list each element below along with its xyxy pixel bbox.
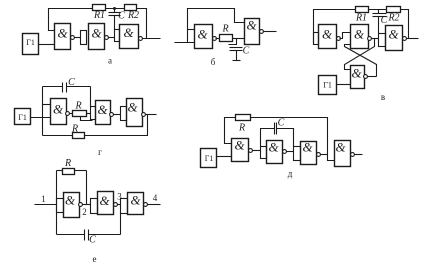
input stub upper DD1 (circuit b) xyxy=(188,29,195,31)
NAND gate DD2 (circuit e) xyxy=(98,192,114,215)
wire G1 to gate1 (circuit a) xyxy=(39,44,55,46)
output bubble DD1 node 2 (circuit e) xyxy=(79,203,83,207)
svg-text:&: & xyxy=(268,140,279,155)
output wire (circuit v) xyxy=(407,38,419,40)
wire DD1 to R (circuit g) xyxy=(70,113,73,115)
wire DD1 out jog to DD2 (circuit v) xyxy=(340,33,351,39)
svg-text:&: & xyxy=(57,26,68,41)
input wire node 1 (circuit e) xyxy=(35,204,57,206)
top wire with capacitor (circuit g) xyxy=(43,86,91,88)
feedback wire left vertical (circuit b) xyxy=(188,9,245,43)
wire R1 to R2 (circuit a) xyxy=(106,8,125,10)
svg-text:3: 3 xyxy=(117,192,122,202)
svg-text:C: C xyxy=(89,235,96,246)
NAND gate DD3 (circuit g) xyxy=(127,99,143,127)
input box DD2 (circuit d) xyxy=(261,147,267,159)
svg-text:&: & xyxy=(99,193,110,208)
NAND gate DD2 (circuit v) xyxy=(351,25,369,49)
svg-text:4: 4 xyxy=(153,193,158,203)
feedback left vertical (circuit g) xyxy=(42,87,44,136)
svg-text:&: & xyxy=(322,27,333,42)
wire DD2 to DD3 node 3 (circuit e) xyxy=(118,204,121,206)
resistor R (circuit e) xyxy=(63,169,75,175)
svg-text:R: R xyxy=(221,24,228,35)
NAND gate DD1 (circuit g) xyxy=(51,99,67,125)
NAND gate DD2 (circuit a) xyxy=(89,24,105,50)
output bubble DD3 (circuit g) xyxy=(142,113,146,117)
svg-text:2: 2 xyxy=(82,207,87,217)
NAND gate DD3 (circuit d) xyxy=(301,142,317,165)
output bubble DD2 (circuit g) xyxy=(110,113,114,117)
NAND gate DD2 (circuit g) xyxy=(96,101,111,125)
output bubble DD4 (circuit d) xyxy=(351,153,355,157)
cap lead into DD2 input box (circuit g) xyxy=(90,87,92,107)
svg-text:&: & xyxy=(246,18,257,33)
svg-text:&: & xyxy=(130,193,141,208)
svg-text:R: R xyxy=(238,123,245,134)
resistor R loop (circuit e) xyxy=(57,171,87,205)
svg-text:&: & xyxy=(53,102,64,117)
output wire (circuit b) xyxy=(264,31,277,33)
input wire (circuit b) xyxy=(175,42,195,44)
NAND gate DD2 (circuit d) xyxy=(267,141,283,164)
svg-text:Г1: Г1 xyxy=(323,81,332,90)
input box DD3 (circuit e) xyxy=(121,199,128,214)
svg-text:R: R xyxy=(71,124,78,135)
NAND gate DD1 (circuit e) xyxy=(64,193,80,218)
svg-text:R2: R2 xyxy=(387,13,399,24)
feedback left vertical (circuit v) xyxy=(314,10,356,45)
input stub DD1 (circuit g) xyxy=(43,104,51,106)
svg-text:&: & xyxy=(123,25,134,40)
wire R2 to output node (circuit v) xyxy=(401,10,409,39)
junction node dot (circuit a) xyxy=(113,7,116,10)
output bubble DD1 (circuit b) xyxy=(213,37,217,41)
svg-text:&: & xyxy=(197,27,208,42)
wire R to DD2 (circuit g) xyxy=(87,113,91,115)
svg-text:C: C xyxy=(118,11,125,22)
svg-text:Г1: Г1 xyxy=(205,154,214,163)
svg-text:C: C xyxy=(278,118,285,129)
NAND gate DD3 (circuit a) xyxy=(120,25,139,49)
output bubble DD1 (circuit v) xyxy=(337,37,341,41)
svg-text:&: & xyxy=(335,140,346,155)
input box DD2 (circuit e) xyxy=(91,199,98,214)
wire DD1 to R (circuit b) xyxy=(216,38,220,40)
wire DD2 to DD3 (circuit d) xyxy=(287,151,294,153)
NAND gate DD3 (circuit v) xyxy=(386,26,403,51)
NAND gate DD1 (circuit a) xyxy=(55,24,71,50)
wire G1 to DD4 (circuit v) xyxy=(337,84,351,86)
output bubble DD3 (circuit d) xyxy=(317,153,321,157)
input box DD1 (circuit v) xyxy=(314,33,319,45)
cross wire DD2-out to DD4-in (circuit v) xyxy=(345,39,375,70)
resistor R2 (circuit a) xyxy=(125,5,137,11)
input box DD3 (circuit g) xyxy=(121,107,127,121)
wire R2 to output node (circuit a) xyxy=(137,9,147,39)
input box DD2 (circuit g) xyxy=(91,107,96,120)
output wire (circuit d) xyxy=(355,154,363,156)
left bus bar (circuit e) xyxy=(56,171,58,235)
svg-text:&: & xyxy=(65,193,76,208)
output bubble DD3 (circuit a) xyxy=(139,37,143,41)
svg-text:&: & xyxy=(388,27,399,42)
cross wire DD4-out to DD2-in (circuit v) xyxy=(345,45,377,77)
input box DD3 (circuit d) xyxy=(294,147,301,161)
input box DD2 (circuit a) xyxy=(81,31,87,45)
output bubble DD1 (circuit a) xyxy=(71,36,75,40)
wire DD1 to DD2 (circuit e) xyxy=(83,204,91,206)
feedback wire to DD1 input (circuit a) xyxy=(49,9,93,31)
svg-text:R1: R1 xyxy=(355,13,367,24)
capacitor C (circuit a) xyxy=(109,9,121,30)
input box DD3 (circuit a) xyxy=(115,30,120,42)
svg-text:C: C xyxy=(68,77,75,88)
svg-text:б: б xyxy=(211,57,216,67)
svg-text:в: в xyxy=(381,92,385,102)
output bubble DD3 (circuit e) xyxy=(144,203,148,207)
output bubble DD3 (circuit v) xyxy=(403,37,407,41)
svg-text:е: е xyxy=(93,254,97,264)
wire R1 to R2 (circuit v) xyxy=(369,9,387,11)
wire DD4 out (circuit v) xyxy=(368,76,377,78)
NAND gate DD3 (circuit e) xyxy=(128,193,144,215)
generator G1 (circuit v) xyxy=(319,76,337,95)
output wire (circuit a) xyxy=(143,38,161,40)
NAND gate DD1 (circuit v) xyxy=(319,25,337,49)
generator G1 (circuit g) xyxy=(15,109,31,125)
resistor R (circuit b) xyxy=(220,35,233,42)
wire DD2 to DD3 (circuit g) xyxy=(114,114,121,116)
svg-text:R2: R2 xyxy=(127,10,139,21)
wire R to DD2 (circuit b) xyxy=(233,38,245,40)
svg-text:C: C xyxy=(243,46,250,57)
generator G1 (circuit d) xyxy=(201,149,217,168)
resistor R1 (circuit a) xyxy=(93,5,106,11)
svg-text:д: д xyxy=(288,169,293,179)
capacitor loop over DD2 (circuit d) xyxy=(261,123,294,147)
svg-text:&: & xyxy=(127,100,138,115)
wire DD1 to DD2 (circuit d) xyxy=(253,150,261,152)
capacitor C lead (circuit b) xyxy=(229,39,243,61)
output bubble DD1 (circuit d) xyxy=(249,149,253,153)
output bubble DD1 (circuit g) xyxy=(66,112,70,116)
feedback R loop left (circuit d) xyxy=(225,118,236,144)
output bubble DD2 (circuit v) xyxy=(368,37,372,41)
output bubble DD2 (circuit a) xyxy=(105,36,109,40)
wire DD3 to DD4 (circuit d) xyxy=(321,154,328,156)
NAND gate DD1 (circuit b) xyxy=(195,25,213,49)
output wire node 4 (circuit e) xyxy=(148,204,161,206)
svg-text:R: R xyxy=(64,158,71,169)
NAND gate DD2 (circuit b) xyxy=(245,19,260,45)
resistor R upper (circuit g) xyxy=(73,111,87,117)
feedback R loop right wire (circuit d) xyxy=(251,118,335,161)
svg-text:&: & xyxy=(302,140,313,155)
svg-text:&: & xyxy=(91,26,102,41)
feedback bottom wire with R (circuit g) xyxy=(43,115,148,136)
resistor R (circuit d) xyxy=(236,115,251,121)
svg-text:R: R xyxy=(74,101,81,112)
generator G1 (circuit a) xyxy=(23,34,39,55)
svg-text:C: C xyxy=(381,15,388,26)
input box DD3 (circuit v) xyxy=(379,34,386,47)
svg-text:&: & xyxy=(234,138,245,153)
output bubble DD2 (circuit d) xyxy=(283,150,287,154)
svg-text:а: а xyxy=(108,56,112,66)
output wire (circuit g) xyxy=(146,114,157,116)
svg-text:Г1: Г1 xyxy=(26,38,35,47)
svg-text:&: & xyxy=(97,102,108,117)
capacitor C (circuit v) xyxy=(373,10,387,34)
resistor R2 (circuit v) xyxy=(387,7,401,13)
capacitor loop bottom (circuit e) xyxy=(57,214,121,241)
output bubble DD2 (circuit b) xyxy=(260,30,264,34)
svg-text:1: 1 xyxy=(41,194,46,204)
NAND gate DD4 (circuit d) xyxy=(335,141,351,167)
wire G1 to DD1 (circuit g) xyxy=(31,117,51,119)
wire DD2 out to DD3 (circuit v) xyxy=(372,38,379,40)
wire DD1 out to DD2 (circuit a) xyxy=(75,37,81,39)
svg-text:&: & xyxy=(351,66,362,81)
capacitor C (circuit g) xyxy=(63,83,67,93)
output bubble DD2 (circuit e) xyxy=(114,203,118,207)
svg-text:&: & xyxy=(354,27,365,42)
svg-text:R1: R1 xyxy=(93,10,105,21)
NAND gate DD4 (circuit v) xyxy=(351,66,365,89)
output bubble DD4 (circuit v) xyxy=(364,75,368,79)
input box DD1 (circuit e) xyxy=(57,199,64,213)
svg-text:г: г xyxy=(98,147,102,157)
resistor R1 (circuit v) xyxy=(356,7,369,13)
NAND gate DD1 (circuit d) xyxy=(232,139,249,162)
svg-text:Г1: Г1 xyxy=(18,113,27,122)
wire G1 to DD1 (circuit d) xyxy=(217,156,232,158)
resistor R lower (circuit g) xyxy=(73,133,85,139)
wire DD2 out to DD3 (circuit a) xyxy=(109,37,115,39)
